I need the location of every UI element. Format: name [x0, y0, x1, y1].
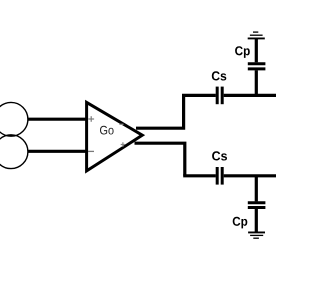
- wire Cp bottom riser: [255, 177, 258, 201]
- label Cs top: [212, 71, 227, 80]
- minus at top output: [119, 123, 123, 125]
- capacitor Cp top plates: [248, 64, 266, 69]
- label Cs bottom: [212, 151, 227, 160]
- capacitor Cs top plates: [217, 87, 222, 105]
- plus at non-inverting input: [88, 116, 94, 122]
- op-amp U1 triangle: [87, 102, 143, 170]
- minus at inverting input: [88, 150, 94, 152]
- wire top rail left: [182, 94, 216, 97]
- label Go: [100, 126, 114, 135]
- capacitor Cp bottom plates: [248, 203, 266, 208]
- wire bottom input: [28, 150, 87, 153]
- wire bottom output: [135, 143, 185, 176]
- source top (left circle): [0, 102, 28, 136]
- plus at bottom output: [121, 142, 125, 147]
- wire Cp top to ground: [255, 39, 258, 63]
- wire bottom rail left: [183, 174, 216, 177]
- ground bottom: [248, 232, 265, 238]
- ground top: [248, 32, 265, 38]
- label Cp bottom: [233, 217, 248, 229]
- wire top output: [136, 95, 184, 128]
- capacitor Cs bottom plates: [217, 167, 222, 185]
- wire top input: [28, 118, 87, 121]
- wire top rail right: [224, 94, 276, 97]
- wire Cp top riser: [255, 70, 258, 97]
- source bottom (left circle): [0, 135, 28, 169]
- wire bottom rail right: [224, 174, 276, 177]
- wire Cp bottom to ground: [255, 209, 258, 232]
- label Cp top: [235, 46, 250, 58]
